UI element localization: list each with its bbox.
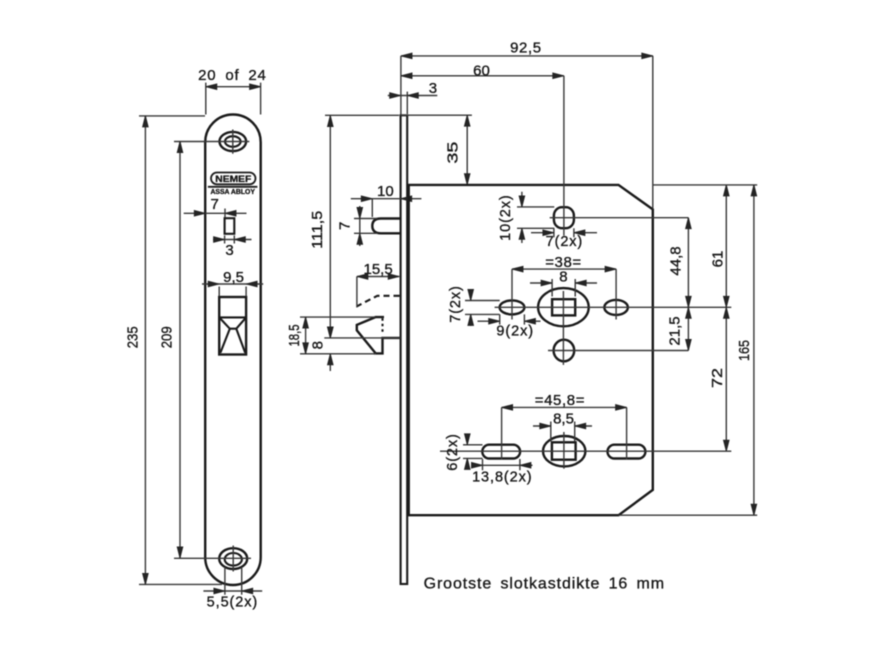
right fixing ellipse [604,300,628,315]
svg-text:20 of 24: 20 of 24 [198,67,267,84]
dimension 61 and 72 line [725,185,727,451]
svg-text:9(2x): 9(2x) [496,324,534,340]
NEMEF logo oval [211,173,256,185]
dimension 60 line [401,76,564,236]
latch bolt bevel lines [219,317,246,352]
bottom screw hole inner [225,553,242,566]
svg-text:NEMEF: NEMEF [215,174,251,185]
cylinder ellipse [543,436,585,466]
svg-text:ASSA ABLOY: ASSA ABLOY [210,187,255,196]
left fixing ellipse [500,300,525,314]
svg-text:3: 3 [225,242,233,259]
dimension 7 latch line [354,206,378,246]
dimension 8 follower line [530,279,597,297]
dimension 8 deadbolt line [324,338,400,371]
cylinder square [552,442,576,459]
svg-text:10(2x): 10(2x) [498,194,514,241]
svg-text:10: 10 [377,183,394,200]
bottom right obround hole [608,445,646,459]
dimension 9,5 line [202,284,263,296]
dimension 10(2x) line [517,192,554,243]
ASSA ABLOY underline [208,186,258,188]
follower centerline vertical [562,291,564,365]
lock case outline [409,185,653,515]
svg-text:9,5: 9,5 [223,269,244,286]
dimension 13,8(2x) line [472,459,533,470]
svg-text:7(2x): 7(2x) [448,285,464,323]
follower ellipse [538,288,589,326]
dimension 20 of 24 line [206,83,261,115]
follower centerline horizontal [495,306,732,308]
dimension 15,5 line [357,277,399,308]
small hole below follower [554,340,575,362]
svg-text:=45,8=: =45,8= [535,392,585,409]
svg-text:235: 235 [125,326,142,348]
dimension 18,5 line [300,317,376,354]
svg-text:15,5: 15,5 [363,261,392,278]
svg-text:61: 61 [710,251,727,268]
svg-text:3: 3 [429,80,437,97]
dimension 35 line [401,115,472,185]
svg-text:60: 60 [473,63,490,80]
svg-text:44,8: 44,8 [668,246,685,275]
dimension 9(2x) line [478,314,541,324]
top hole crosshair horizontal [550,217,689,219]
svg-text:209: 209 [159,326,176,348]
dimension 38 line [512,269,616,319]
dimension 3 plate line [213,236,252,244]
dimension 44,8 and 21,5 line [687,218,689,351]
bottom screw hole outer ring [219,548,247,569]
dimension 7(2x) ellipse line [465,289,500,326]
latch bolt front view box [219,297,246,355]
dimension 8,5 line [533,422,592,442]
faceplate front view outline [205,115,261,586]
deadbolt hidden edge dotted [381,318,383,332]
svg-text:35: 35 [445,142,462,164]
case top fixing hole [554,207,574,228]
deadbolt retracted dashed outline [357,296,400,307]
faceplate side view strip [401,115,408,584]
follower square spindle [552,299,575,315]
dimension 92,5 line [401,56,653,209]
svg-text:5,5(2x): 5,5(2x) [207,595,258,611]
svg-text:111,5: 111,5 [309,211,326,249]
deadbolt hook side view solid [357,317,401,353]
dimension 3 strip line [388,92,438,114]
svg-text:Grootste slotkastdikte 16 mm: Grootste slotkastdikte 16 mm [424,576,665,593]
dimension 111,5 line [325,115,399,338]
dimension 7 plate line [184,209,247,218]
dimension 45,8 line [502,407,627,459]
small hole crosshair horizontal [548,350,688,352]
svg-text:7: 7 [337,222,354,230]
svg-text:92,5: 92,5 [510,40,542,57]
svg-text:13,8(2x): 13,8(2x) [472,470,532,486]
latch bolt side view [372,219,400,234]
svg-text:21,5: 21,5 [667,316,684,345]
svg-text:72: 72 [709,368,726,388]
top screw hole crosshair [174,130,249,154]
dimension 5,5(2x) line [203,567,262,595]
svg-text:7: 7 [211,196,219,213]
cylinder row centerline [440,450,731,452]
svg-text:6(2x): 6(2x) [445,433,461,471]
dimension 209 line [179,142,181,559]
top screw hole outer ring [220,132,247,151]
dimension 235 line [139,116,222,585]
bottom left obround hole [482,445,520,459]
dimension 10 latch line [351,199,422,217]
top screw hole inner [225,136,241,147]
dimension 6(2x) line [463,434,483,470]
svg-text:8,5: 8,5 [553,411,574,428]
cylinder centerline vertical [563,432,565,469]
svg-text:8: 8 [559,269,567,286]
svg-text:165: 165 [736,340,753,361]
dimension 7(2x) top hole line [531,228,597,237]
dimension 165 line [619,185,758,515]
bottom screw hole crosshair [174,546,251,572]
svg-text:18,5: 18,5 [286,325,303,347]
follower slot rectangle front view [225,218,235,234]
svg-text:8: 8 [310,341,327,349]
svg-text:7(2x): 7(2x) [546,234,584,250]
